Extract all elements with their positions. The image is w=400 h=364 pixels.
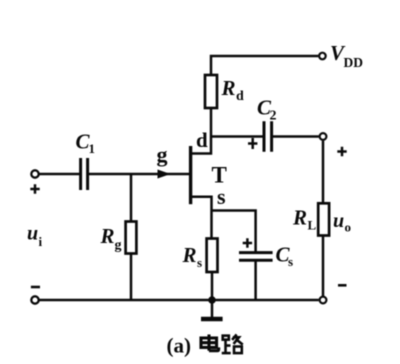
svg-text:1: 1 xyxy=(89,141,96,156)
label Rs xyxy=(182,243,203,270)
wire output top to RL xyxy=(322,141,325,204)
wire node to Rg xyxy=(130,174,133,222)
wire Rg to bottom rail xyxy=(130,254,133,301)
wire drain node to C2 xyxy=(211,135,263,138)
minus sign output xyxy=(338,284,347,287)
resistor Rd xyxy=(205,75,217,108)
label Cs xyxy=(276,243,294,270)
label VDD xyxy=(330,41,363,70)
ground xyxy=(211,300,214,318)
svg-text:R: R xyxy=(292,206,307,230)
svg-text:s: s xyxy=(288,254,293,269)
terminal VDD xyxy=(319,53,326,60)
caption hanzi lu xyxy=(222,334,243,353)
plus sign at C2 xyxy=(248,138,257,149)
wire source node to Cs xyxy=(212,211,256,252)
svg-text:s: s xyxy=(197,255,202,270)
resistor Rs xyxy=(207,239,218,273)
svg-text:s: s xyxy=(217,184,226,209)
resistor RL xyxy=(318,203,329,235)
wire input top to C1 xyxy=(40,173,80,176)
svg-text:DD: DD xyxy=(344,55,364,70)
label RL xyxy=(292,206,317,233)
svg-text:u: u xyxy=(27,223,38,245)
transistor T source lead xyxy=(191,197,212,239)
svg-text:d: d xyxy=(196,128,208,152)
label Rg xyxy=(100,224,122,253)
label C1 xyxy=(76,130,96,157)
capacitor C1 xyxy=(81,158,88,190)
svg-text:d: d xyxy=(236,89,244,104)
wire bottom rail xyxy=(40,299,319,302)
terminal output - xyxy=(320,297,327,304)
svg-text:L: L xyxy=(308,218,317,233)
wire C2 to output top terminal xyxy=(273,135,319,138)
plus sign output xyxy=(337,147,346,156)
terminal input - xyxy=(31,296,38,303)
plus sign input xyxy=(30,184,39,193)
svg-text:g: g xyxy=(115,238,122,253)
capacitor C2 xyxy=(264,121,272,152)
caption hanzi dian xyxy=(201,334,219,350)
wire Cs to bottom rail xyxy=(254,262,257,301)
terminal output + xyxy=(320,133,327,140)
svg-text:u: u xyxy=(333,210,344,232)
terminal input + xyxy=(31,170,38,177)
svg-text:R: R xyxy=(100,224,115,248)
wire Rd to VDD rail xyxy=(211,56,318,75)
svg-text:i: i xyxy=(39,234,43,249)
minus sign input xyxy=(31,286,40,289)
label C2 xyxy=(257,96,277,124)
resistor Rg xyxy=(126,222,137,254)
svg-text:g: g xyxy=(157,142,168,167)
svg-text:R: R xyxy=(221,76,236,100)
transistor T drain lead xyxy=(191,108,211,154)
svg-text:R: R xyxy=(182,243,197,267)
wire C1 to gate xyxy=(89,173,190,176)
transistor T channel bar xyxy=(189,146,192,204)
label Rd xyxy=(221,76,245,104)
label uo xyxy=(333,210,351,235)
svg-text:o: o xyxy=(345,220,352,235)
wire Rs to ground junction xyxy=(211,272,214,300)
svg-text:2: 2 xyxy=(270,109,277,124)
node junction dot xyxy=(208,296,216,304)
transistor T gate arrow xyxy=(158,170,171,179)
label ui xyxy=(27,223,43,250)
wire RL to output bottom xyxy=(322,236,325,297)
capacitor Cs xyxy=(239,253,273,261)
svg-text:(a): (a) xyxy=(167,334,192,358)
plus sign at Cs xyxy=(243,238,252,247)
